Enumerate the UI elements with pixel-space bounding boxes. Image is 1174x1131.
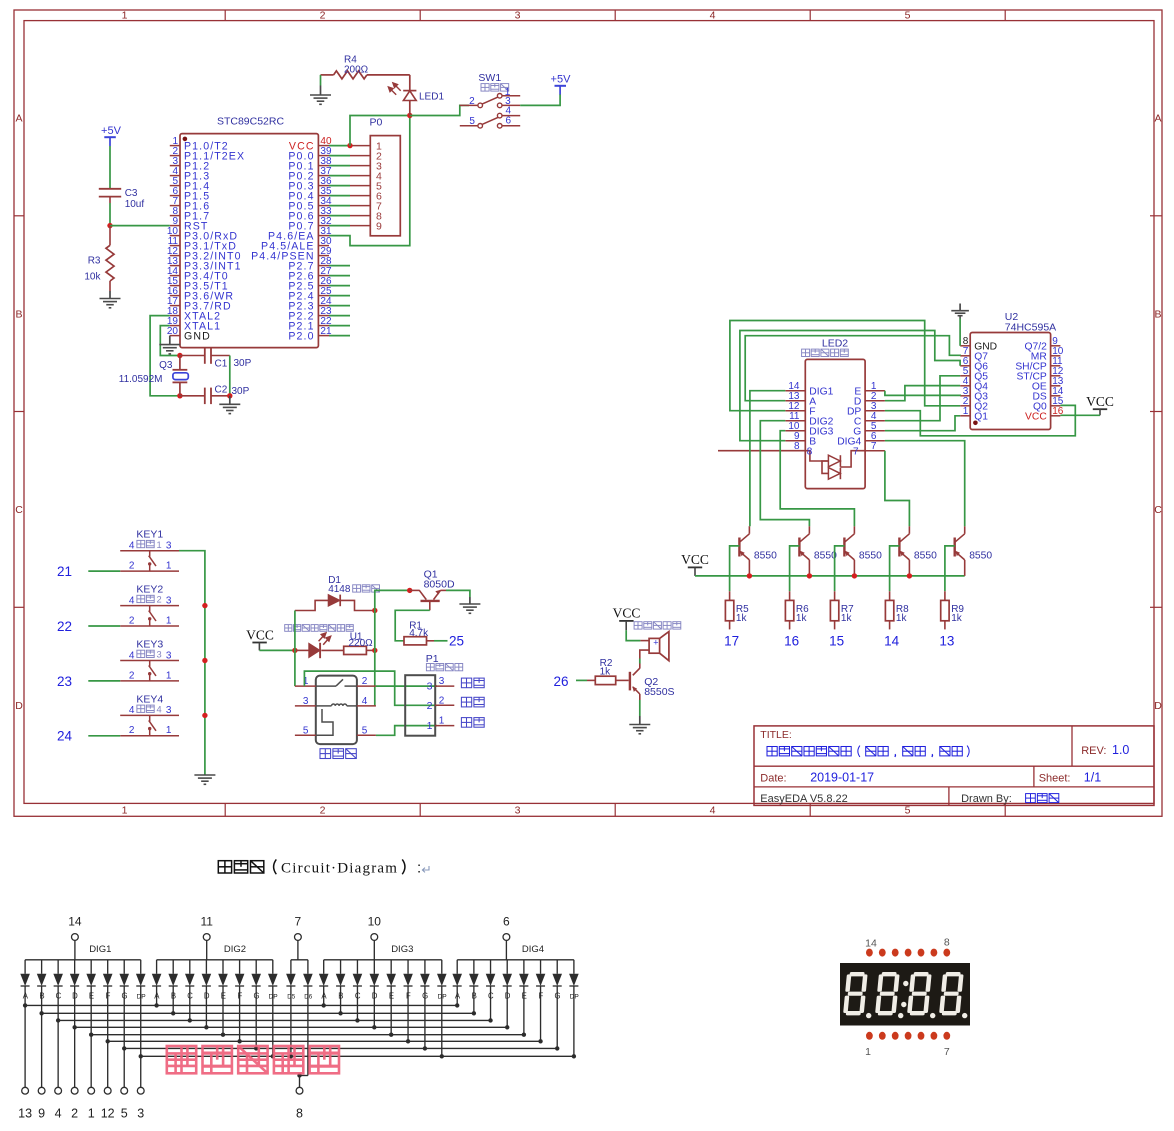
diode DIG1-C [57, 960, 59, 974]
resistor R2 [576, 679, 587, 681]
MCU pin 11 P3.1/TxD [170, 245, 180, 247]
MCU pin 25 P2.4 [318, 295, 329, 297]
svg-text:P1: P1 [426, 653, 439, 665]
bus tap DIG2-E [221, 1033, 225, 1037]
svg-text:16: 16 [784, 634, 799, 649]
capacitor C1 [180, 355, 205, 357]
svg-text:C: C [355, 992, 361, 1001]
svg-text:DIG4: DIG4 [522, 944, 544, 955]
svg-text:3: 3 [515, 804, 521, 816]
wire base of Q4 to R8 [890, 546, 900, 591]
relay pins [295, 685, 316, 687]
LED2 pin 12 F [785, 410, 805, 412]
LED2 pin 2 D [865, 400, 885, 402]
wire net DIG1 to driver1 [750, 391, 785, 527]
IC STC89C52RC [180, 134, 318, 348]
junction node pin40/VCC [347, 143, 352, 148]
svg-text:1k: 1k [796, 613, 808, 624]
ground at C2 [229, 396, 231, 405]
svg-text:4148: 4148 [328, 584, 351, 595]
wire Q1 emitter to ground [446, 590, 470, 597]
U2 pin 4 Q4 [960, 385, 970, 387]
wire coil column VCC side [294, 611, 296, 651]
ground at Q2 [639, 716, 641, 725]
diode DIG2-E [222, 960, 224, 974]
junction node key column [202, 713, 207, 718]
svg-text:4: 4 [55, 1107, 62, 1121]
svg-text:4: 4 [129, 541, 135, 552]
svg-text:+: + [653, 637, 658, 647]
U2 pin 3 Q3 [960, 395, 970, 397]
svg-text:VCC: VCC [681, 552, 709, 567]
svg-text:11.0592M: 11.0592M [119, 374, 163, 385]
svg-text:LED1: LED1 [419, 91, 444, 102]
svg-text:G: G [253, 992, 259, 1001]
transistor Q 8550 digit4 [898, 538, 900, 557]
svg-text:30P: 30P [234, 358, 252, 369]
net label 常闭 [461, 697, 484, 707]
svg-text:A: A [15, 113, 22, 125]
svg-text:4: 4 [710, 804, 716, 816]
buzzer LS1 [640, 640, 649, 642]
svg-text:1: 1 [963, 406, 969, 417]
wire XTAL2 loop [150, 316, 180, 396]
top pin 7 [295, 934, 302, 941]
ground at R3 [109, 291, 111, 299]
transistor Q 8550 digit3 [843, 538, 845, 557]
LED2 pin 1 E [865, 390, 885, 392]
svg-text:A: A [455, 992, 461, 1001]
bottom pin 5 [123, 1048, 125, 1087]
svg-text:A: A [1154, 113, 1161, 125]
diode DIG2-C [189, 960, 191, 974]
svg-text:A: A [321, 992, 327, 1001]
svg-text:4: 4 [129, 650, 135, 661]
diode DIG4-C [490, 960, 492, 974]
title block [754, 726, 1154, 806]
U2 pin 5 Q5 [960, 375, 970, 377]
P0 pin 6 [350, 195, 370, 197]
svg-text:9: 9 [376, 220, 382, 232]
svg-text:2: 2 [71, 1107, 78, 1121]
P0 pin 1 [350, 145, 370, 147]
svg-text:14: 14 [68, 914, 82, 928]
junction node D1 right [372, 608, 377, 613]
svg-text:1: 1 [122, 804, 128, 816]
LED2 pin 14 DIG1 [785, 390, 805, 392]
svg-text:4: 4 [129, 595, 135, 606]
svg-text:GND: GND [184, 330, 211, 342]
wire pin31 EA to LED column [329, 116, 410, 246]
U2 pin 2 Q2 [960, 405, 970, 407]
MCU pin 38 P0.1 [318, 165, 329, 167]
P0 pin 4 [350, 175, 370, 177]
svg-text:8550: 8550 [814, 550, 837, 561]
MCU pin 27 P2.6 [318, 275, 329, 277]
svg-text:3: 3 [137, 1107, 144, 1121]
svg-text:2: 2 [320, 804, 326, 816]
svg-text:F: F [406, 992, 411, 1001]
resistor R7 1k [834, 591, 836, 600]
diode D5 [290, 960, 292, 974]
svg-text:DP: DP [269, 994, 279, 1001]
wire RST node to pin9 [110, 225, 170, 227]
svg-text:STC89C52RC: STC89C52RC [217, 116, 285, 128]
svg-text:13: 13 [18, 1107, 32, 1121]
diode DIG2-F [239, 960, 241, 974]
MCU pin 9 RST [170, 225, 180, 227]
top pin 6 [503, 934, 510, 941]
svg-text:Date:: Date: [760, 773, 786, 785]
capacitor C3 [99, 188, 121, 190]
P0 pin 9 [350, 225, 370, 227]
wire base of Q5 to R9 [945, 546, 955, 591]
U2 pin 13 OE [1051, 385, 1061, 387]
wire Q2 emitter down [639, 700, 641, 716]
svg-text:220Ω: 220Ω [349, 638, 374, 649]
display photo [840, 963, 970, 1026]
bottom pin 13 [24, 1005, 26, 1087]
P1 pin 2 [435, 704, 454, 706]
MCU pin 3 P1.2 [170, 165, 180, 167]
bus tap DIG1-E [89, 1033, 93, 1037]
diode DIG4-DP [573, 960, 575, 974]
display pin dots top [866, 949, 873, 957]
U2 pin 8 GND [960, 345, 970, 347]
wire SW1 pin3 to +5V [520, 95, 560, 106]
bus tap DIG3-A [322, 1003, 326, 1007]
svg-text:1k: 1k [736, 613, 748, 624]
MCU pin 5 P1.4 [170, 185, 180, 187]
svg-text:E: E [522, 992, 527, 1001]
svg-text:DP: DP [570, 994, 580, 1001]
top pin 10 [371, 934, 378, 941]
watermark [167, 1046, 339, 1073]
MCU pin 23 P2.2 [318, 315, 329, 317]
svg-text:B: B [171, 992, 176, 1001]
junction node key column [202, 603, 207, 608]
bus tap DIG4-F [538, 1039, 542, 1043]
bus tap DIG4-D [505, 1025, 509, 1029]
top pin 14 [72, 934, 79, 941]
LED2 pin 13 A [785, 400, 805, 402]
wire net D-Q4 [885, 386, 960, 401]
MCU pin 22 P2.1 [318, 325, 329, 327]
ground at MCU GND pin20 [169, 336, 171, 345]
MCU pin 30 P4.5/ALE [318, 245, 329, 247]
svg-text:8550: 8550 [969, 550, 992, 561]
IC U2 74HC595A [970, 333, 1050, 430]
bus tap DIG3-C [355, 1018, 359, 1022]
svg-text:12: 12 [101, 1107, 115, 1121]
display group DIG1 [25, 959, 141, 961]
junction node C2 right [227, 393, 232, 398]
diode DIG1-A [24, 960, 26, 974]
connector P1 [405, 675, 435, 736]
svg-text:C: C [187, 992, 193, 1001]
bottom pin 4 [57, 1020, 59, 1087]
P0 pin 7 [350, 205, 370, 207]
svg-text:4.7k: 4.7k [409, 628, 429, 639]
bus tap DIG1-D [72, 1025, 76, 1029]
svg-text:C: C [15, 504, 23, 516]
MCU pin 7 P1.6 [170, 205, 180, 207]
wire net 22 [88, 625, 120, 627]
junction node rail [747, 573, 752, 578]
wire C3 to RST node [109, 203, 111, 226]
svg-text:1k: 1k [600, 667, 612, 678]
crystal Q3 [179, 356, 181, 370]
ground keys [204, 774, 206, 777]
svg-text:2: 2 [129, 670, 135, 681]
diode DIG1-D [74, 960, 76, 974]
display group DIG2 [157, 959, 273, 961]
svg-text:1: 1 [157, 540, 162, 550]
U2 pin 14 DS [1051, 395, 1061, 397]
wire base of Q2 to R6 [790, 546, 800, 591]
svg-text:DIG3: DIG3 [391, 944, 413, 955]
bus tap DIG1-F [106, 1039, 110, 1043]
svg-text:1: 1 [865, 1046, 871, 1058]
relay body [316, 676, 357, 745]
diode D6 [307, 960, 309, 974]
MCU pin 37 P0.2 [318, 175, 329, 177]
svg-text:2: 2 [129, 615, 135, 626]
junction node rail [852, 573, 857, 578]
svg-text:2: 2 [157, 595, 162, 605]
bus tap DIG1-DP [139, 1054, 143, 1058]
svg-text:Sheet:: Sheet: [1039, 773, 1071, 785]
bus tap DIG3-D [372, 1025, 376, 1029]
svg-text:LED2: LED2 [822, 337, 848, 349]
svg-text:3: 3 [515, 10, 521, 22]
svg-text:2: 2 [469, 96, 475, 107]
display group DIG4 [457, 959, 574, 961]
svg-text:20: 20 [167, 326, 179, 337]
MCU pin 29 P4.4/PSEN [318, 255, 329, 257]
svg-text:1k: 1k [951, 613, 963, 624]
svg-text:E: E [389, 992, 394, 1001]
svg-text:6: 6 [506, 115, 512, 126]
wire net 21 [88, 570, 120, 572]
svg-text:3: 3 [303, 696, 309, 707]
ground at R4 [320, 75, 322, 86]
svg-text:1: 1 [166, 561, 172, 572]
svg-text:14: 14 [865, 937, 877, 949]
SW1 pole1 [502, 95, 520, 97]
bus tap DIG3-G [423, 1046, 427, 1050]
wires MCU P0 bus to header [329, 145, 350, 147]
svg-text:5: 5 [362, 725, 368, 736]
svg-text:G: G [554, 992, 560, 1001]
MCU pin 8 P1.7 [170, 215, 180, 217]
display group colon D5 D6 [291, 959, 308, 961]
display digit 2 [875, 972, 900, 1015]
svg-text:DP: DP [136, 994, 146, 1001]
diode DIG1-F [107, 960, 109, 974]
diode DIG2-B [172, 960, 174, 974]
svg-text:13: 13 [939, 634, 954, 649]
MCU pin 4 P1.3 [170, 175, 180, 177]
wire VCC rail [695, 575, 965, 577]
MCU pin 13 P3.3/INT1 [170, 265, 180, 267]
svg-text:7: 7 [853, 446, 859, 457]
svg-text:8550: 8550 [859, 550, 882, 561]
svg-text:DP: DP [438, 994, 448, 1001]
wire +5V to C3 [109, 146, 111, 189]
P1 pin 3 [435, 685, 454, 687]
svg-text:10uf: 10uf [125, 199, 145, 210]
display digit 3 [907, 972, 932, 1015]
svg-text:7: 7 [944, 1046, 950, 1058]
top pin 11 [203, 934, 210, 941]
MCU pin 21 P2.0 [318, 335, 329, 337]
svg-text:3: 3 [439, 676, 445, 687]
U2 pin 10 MR [1051, 355, 1061, 357]
svg-text:8550: 8550 [914, 550, 937, 561]
svg-text:11: 11 [200, 914, 213, 928]
MCU pin 40 VCC [318, 145, 329, 147]
MCU pin 6 P1.5 [170, 195, 180, 197]
MCU pin 24 P2.3 [318, 305, 329, 307]
ground above U2 [959, 304, 961, 312]
wire net 24 [88, 735, 120, 737]
bus tap DIG3-F [406, 1039, 410, 1043]
wire net P0-supply [350, 116, 410, 146]
U2 pin 15 Q0 [1051, 405, 1061, 407]
svg-text:8550: 8550 [754, 550, 777, 561]
junction node LED1 bottom [407, 113, 412, 118]
diode DIG3-F [407, 960, 409, 974]
net label 输入 [461, 718, 484, 728]
diode DIG3-C [356, 960, 358, 974]
diode DIG4-E [523, 960, 525, 974]
svg-text:23: 23 [57, 674, 72, 689]
wire net 23 [88, 680, 120, 682]
diode DIG3-DP [441, 960, 443, 974]
display digit 4 [939, 972, 964, 1015]
bus tap DIG2-G [254, 1046, 258, 1050]
svg-text:5: 5 [905, 804, 911, 816]
bus tap DIG4-E [522, 1033, 526, 1037]
wire net DIG4 to driver5 [885, 441, 965, 527]
svg-text:26: 26 [553, 674, 568, 689]
wire Q1 base to R1 [395, 610, 430, 641]
wire net G-Q1 [885, 416, 960, 431]
svg-text:5: 5 [905, 10, 911, 22]
svg-text:10: 10 [368, 914, 382, 928]
svg-text:2: 2 [129, 725, 135, 736]
svg-text:F: F [538, 992, 543, 1001]
svg-text:+5V: +5V [551, 74, 572, 86]
heading circuit diagram [218, 861, 263, 873]
svg-text:1: 1 [88, 1107, 95, 1121]
svg-text:D: D [15, 700, 23, 712]
svg-text:1k: 1k [841, 613, 853, 624]
display group DIG3 [324, 959, 442, 961]
svg-text:5: 5 [121, 1107, 128, 1121]
sheet border frame [14, 10, 1162, 816]
bus tap DIG1-A [23, 1003, 27, 1007]
svg-text:1: 1 [427, 720, 433, 732]
wires P2 port stubs [329, 265, 350, 267]
svg-text:C: C [1154, 504, 1162, 516]
U2 pin 11 SH/CP [1051, 365, 1061, 367]
wire net A-Q7 [745, 336, 960, 401]
wire buzzer to Q2 [639, 659, 641, 664]
resistor R8 1k [889, 591, 891, 600]
MCU pin 17 P3.7/RD [170, 305, 180, 307]
wire U2 VCC pin16 [1060, 414, 1100, 416]
junction node XTAL top [177, 353, 182, 358]
MCU pin 20 GND [170, 335, 180, 337]
bus tap DIG3-E [389, 1033, 393, 1037]
LED relay indicator [295, 649, 309, 651]
bus tap DIG4-C [488, 1018, 492, 1022]
LED2 pin 8 [785, 450, 805, 452]
LED2 pin 4 C [865, 420, 885, 422]
MCU pin 18 XTAL2 [170, 315, 180, 317]
svg-text:C: C [56, 992, 62, 1001]
wire R1 to net 25 [434, 640, 448, 642]
svg-text:B: B [338, 992, 343, 1001]
svg-text:P0: P0 [370, 117, 383, 129]
ground at Q1 [469, 597, 471, 604]
svg-text:KEY3: KEY3 [136, 638, 163, 650]
svg-text:17: 17 [724, 634, 739, 649]
diode DIG2-A [156, 960, 158, 974]
transistor Q 8550 digit1 [738, 538, 740, 557]
bottom pin 12 [107, 1041, 109, 1087]
svg-text:1.0: 1.0 [1112, 743, 1129, 757]
diode DIG1-DP [140, 960, 142, 974]
resistor R3 [109, 226, 111, 246]
MCU pin 1 P1.0/T2 [170, 145, 180, 147]
wire XTAL1 loop [160, 326, 180, 356]
svg-text:9: 9 [38, 1107, 45, 1121]
svg-text:TITLE:: TITLE: [760, 729, 792, 741]
svg-text:VCC: VCC [246, 628, 274, 643]
svg-text:1: 1 [439, 716, 445, 727]
svg-text:15: 15 [829, 634, 844, 649]
wire net DIG3 to driver3 [780, 431, 854, 527]
diode DIG4-D [506, 960, 508, 974]
svg-text:22: 22 [57, 619, 72, 634]
svg-text:1: 1 [166, 725, 172, 736]
svg-text:1: 1 [166, 670, 172, 681]
svg-text:Q3: Q3 [159, 360, 173, 371]
wire net F-Q2 [730, 321, 960, 411]
display digit 1 [843, 972, 868, 1015]
wire D1 to Q1 collector [375, 590, 410, 610]
MCU pin 10 P3.0/RxD [170, 235, 180, 237]
svg-text:KEY4: KEY4 [136, 693, 163, 705]
resistor R5 1k [729, 591, 731, 600]
svg-text:C3: C3 [125, 188, 138, 199]
svg-text:4: 4 [362, 696, 368, 707]
svg-text:D: D [72, 992, 78, 1001]
junction node XTAL bottom [177, 393, 182, 398]
svg-text:3: 3 [166, 595, 172, 606]
svg-text:EasyEDA V5.8.22: EasyEDA V5.8.22 [760, 793, 847, 805]
P1 pin 1 [435, 725, 454, 727]
wire C1 to C2 [229, 356, 231, 396]
bus tap DIG4-B [472, 1011, 476, 1015]
diode DIG2-D [205, 960, 207, 974]
svg-text:5: 5 [303, 725, 309, 736]
svg-text:2: 2 [362, 676, 368, 687]
wire coil column VCC to pin1 [294, 650, 296, 686]
